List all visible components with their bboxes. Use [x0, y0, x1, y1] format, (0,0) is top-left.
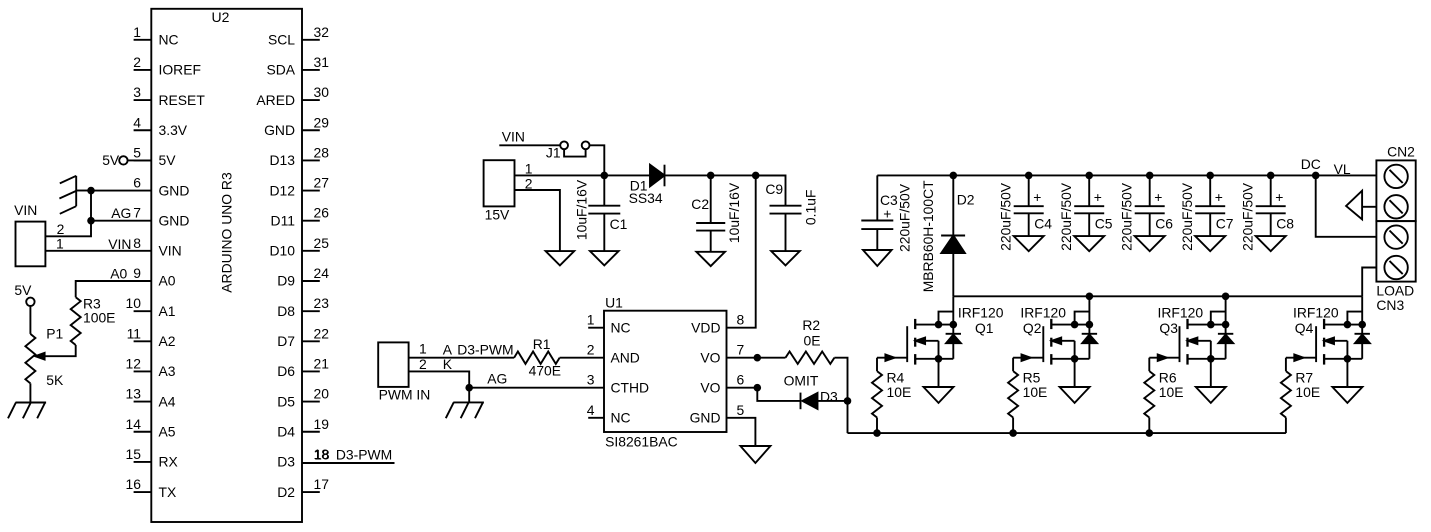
wire Q1 drain-source vertical: [952, 296, 954, 359]
svg-text:5V: 5V: [14, 282, 32, 298]
svg-text:R2: R2: [802, 317, 820, 333]
transistor Q3 gate bar: [1179, 326, 1181, 362]
svg-text:K: K: [443, 356, 453, 372]
svg-text:21: 21: [314, 355, 330, 371]
U1 pin8 VDD: [691, 312, 744, 336]
U2 right pin 25 D10: [270, 235, 330, 259]
wire 15V pin2 to ground: [515, 176, 560, 251]
Q1 substrate arrow: [915, 338, 938, 359]
svg-text:C3: C3: [880, 192, 898, 208]
svg-text:220uF/50V: 220uF/50V: [897, 183, 913, 252]
wire Q2 drain: [1051, 321, 1093, 329]
junction drain Q2: [1086, 293, 1094, 301]
CN terminal 2: [1384, 195, 1407, 218]
svg-text:2: 2: [525, 176, 533, 192]
svg-text:A3: A3: [159, 363, 176, 379]
svg-text:10uF/16V: 10uF/16V: [574, 179, 590, 240]
wire Q2 source to ground: [1074, 359, 1076, 387]
U2 left pin 4 3.3V: [133, 114, 188, 138]
U2 left pin 9 A0: [133, 265, 175, 289]
U1 pin4 NC: [587, 402, 631, 426]
junction VO pin6: [754, 384, 762, 392]
junction at AGND pin6: [87, 187, 95, 195]
svg-text:4: 4: [587, 402, 595, 418]
svg-text:GND: GND: [159, 212, 190, 228]
U1 pin6 VO: [700, 372, 744, 396]
junction C7: [1206, 172, 1214, 180]
wire Q2 source: [1051, 355, 1089, 363]
svg-text:19: 19: [314, 416, 330, 432]
capacitor C8: [1239, 175, 1294, 250]
svg-text:TX: TX: [159, 484, 177, 500]
U2 right pin 28 D13: [270, 144, 330, 168]
svg-text:2: 2: [133, 54, 141, 70]
U2 left pin 5 5V: [133, 144, 176, 168]
P1 wiper arrow: [35, 353, 44, 360]
svg-text:A1: A1: [159, 303, 176, 319]
junction AG node: [465, 384, 473, 392]
svg-text:U2: U2: [212, 9, 230, 25]
IC U2 ARDUINO UNO R3 body: [151, 9, 302, 522]
svg-text:C4: C4: [1034, 216, 1052, 232]
svg-text:7: 7: [133, 205, 141, 221]
svg-text:GND: GND: [159, 182, 190, 198]
U2 left pin 7 GND: [133, 205, 189, 229]
junction D3 R2: [844, 397, 852, 405]
wire AG to ground: [468, 388, 470, 403]
svg-text:RX: RX: [159, 454, 178, 470]
svg-text:7: 7: [737, 342, 745, 358]
svg-text:VIN: VIN: [108, 236, 131, 252]
svg-text:C6: C6: [1155, 216, 1173, 232]
svg-text:Q2: Q2: [1023, 320, 1042, 336]
svg-text:26: 26: [314, 205, 330, 221]
wire U1 pin6 to D3: [727, 388, 801, 401]
ground at Q1: [924, 387, 954, 403]
svg-text:30: 30: [314, 84, 330, 100]
transistor Q3 label: [1158, 304, 1204, 336]
wire R3 to P1 wiper: [35, 345, 75, 356]
wire gate bottom rail: [848, 432, 1286, 434]
svg-text:Q4: Q4: [1295, 320, 1314, 336]
transistor Q2 label: [1020, 304, 1066, 336]
svg-text:1: 1: [419, 340, 427, 356]
svg-text:IRF120: IRF120: [1158, 304, 1204, 320]
U2 left pin 2 IOREF: [133, 54, 201, 78]
transistor Q4 channel: [1323, 319, 1325, 365]
svg-text:Q1: Q1: [975, 320, 994, 336]
svg-text:CN2: CN2: [1387, 143, 1415, 159]
svg-text:D5: D5: [277, 393, 295, 409]
wire U2 pin9 A0: [76, 265, 152, 297]
svg-text:16: 16: [126, 476, 142, 492]
svg-text:VO: VO: [700, 379, 720, 395]
connector PWM IN: [378, 342, 430, 402]
svg-text:1: 1: [525, 160, 533, 176]
svg-text:2: 2: [587, 342, 595, 358]
svg-text:A: A: [443, 341, 453, 357]
svg-text:CTHD: CTHD: [611, 379, 650, 395]
U2 left pin 14 A5: [126, 416, 176, 440]
U2 vertical label ARDUINO UNO R3: [218, 172, 234, 293]
svg-text:C9: C9: [765, 181, 783, 197]
junction C6: [1146, 172, 1154, 180]
svg-text:12: 12: [126, 355, 142, 371]
svg-text:3: 3: [133, 84, 141, 100]
U2 right pin 17 D2: [277, 476, 329, 500]
net D3-PWM at U2 pin18: [302, 446, 395, 463]
wire R5 to rail: [1009, 418, 1017, 437]
U2 right pin 32 SCL: [268, 24, 329, 48]
svg-text:5V: 5V: [102, 152, 120, 168]
svg-text:15V: 15V: [485, 207, 510, 223]
wire AG to U1 pin3: [469, 371, 604, 388]
svg-text:ARDUINO UNO R3: ARDUINO UNO R3: [218, 172, 234, 293]
capacitor C4: [997, 175, 1052, 250]
svg-text:CN3: CN3: [1376, 297, 1404, 313]
U2 right pin 24 D9: [277, 265, 329, 289]
junction DC node: [1312, 172, 1320, 180]
svg-text:5: 5: [133, 144, 141, 160]
svg-text:220uF/50V: 220uF/50V: [1058, 182, 1074, 251]
junction drain Q3: [1222, 293, 1230, 301]
wire R4 to rail: [873, 418, 881, 437]
svg-text:AND: AND: [611, 349, 640, 365]
svg-text:10E: 10E: [1295, 384, 1320, 400]
wire Q3 source to ground: [1210, 359, 1212, 387]
U1 pin5 GND: [690, 402, 745, 426]
node 5V at U2 pin 5: [102, 152, 151, 168]
svg-text:22: 22: [314, 325, 330, 341]
node 5V at P1: [14, 282, 34, 334]
svg-text:6: 6: [133, 175, 141, 191]
svg-text:NC: NC: [611, 410, 631, 426]
svg-text:SS34: SS34: [629, 190, 663, 206]
svg-text:D7: D7: [277, 333, 295, 349]
svg-text:10E: 10E: [1159, 384, 1184, 400]
svg-text:0E: 0E: [804, 332, 821, 348]
Q3 substrate arrow: [1188, 338, 1211, 359]
wire VDD down to U1 pin8: [727, 175, 756, 327]
svg-text:+: +: [1094, 189, 1102, 205]
svg-text:VDD: VDD: [691, 319, 720, 335]
wire Q1 source: [915, 355, 953, 363]
svg-text:AG: AG: [487, 371, 507, 387]
U1 pin1 NC: [587, 312, 631, 336]
junction D2: [950, 172, 958, 180]
svg-text:IRF120: IRF120: [1293, 304, 1339, 320]
junction C2: [707, 172, 715, 180]
svg-text:8: 8: [737, 312, 745, 328]
svg-text:C1: C1: [610, 216, 628, 232]
svg-text:MBRB60H-100CT: MBRB60H-100CT: [920, 180, 936, 292]
net DC to CN2 pin1: [1301, 156, 1377, 177]
svg-text:23: 23: [314, 295, 330, 311]
svg-text:D3: D3: [277, 454, 295, 470]
U2 left pin 6 GND: [133, 175, 189, 199]
transistor Q2 gate bar: [1042, 326, 1044, 362]
wire R7 to rail: [1285, 418, 1287, 434]
capacitor C1: [574, 175, 628, 251]
svg-text:VO: VO: [700, 349, 720, 365]
U2 left pin 12 A3: [126, 355, 176, 379]
transistor Q4 label: [1293, 304, 1339, 336]
diode D3 OMIT: [784, 372, 848, 409]
svg-text:C7: C7: [1216, 216, 1234, 232]
svg-text:5: 5: [737, 402, 745, 418]
potentiometer P1: [25, 326, 64, 388]
ground at Q2: [1060, 387, 1090, 403]
U2 right pin 23 D8: [277, 295, 329, 319]
svg-text:C8: C8: [1276, 216, 1294, 232]
svg-text:OMIT: OMIT: [784, 372, 819, 388]
wire Q1 gate: [877, 355, 907, 372]
svg-text:IOREF: IOREF: [159, 62, 201, 78]
svg-text:D3-PWM: D3-PWM: [457, 341, 513, 357]
wire PWM pin1 to R1: [409, 340, 514, 357]
resistor R2: [786, 317, 835, 364]
svg-text:Q3: Q3: [1159, 320, 1178, 336]
ground at C7: [1195, 236, 1225, 251]
resistor R7: [1281, 370, 1320, 418]
svg-text:A0: A0: [159, 273, 176, 289]
svg-text:17: 17: [314, 476, 330, 492]
svg-text:U1: U1: [605, 294, 623, 310]
Q4 body diode: [1355, 334, 1370, 343]
wire Q3 source: [1188, 355, 1226, 363]
U2 left pin 1 NC: [133, 24, 178, 48]
arrow at CN2 pin2: [1346, 191, 1376, 220]
svg-text:31: 31: [314, 54, 330, 70]
ground at C3: [863, 250, 892, 266]
U2 left pin 13 A4: [126, 386, 176, 410]
svg-text:NC: NC: [611, 319, 631, 335]
wire Q4 source to ground: [1346, 359, 1348, 387]
svg-text:D3: D3: [820, 388, 838, 404]
Q2 body diode: [1082, 334, 1097, 343]
wire DC to CN3 pin3: [1316, 175, 1377, 236]
wire U2 pin6 GND: [91, 190, 151, 192]
capacitor C5: [1058, 175, 1113, 250]
svg-text:VIN: VIN: [502, 128, 525, 144]
svg-text:AG: AG: [111, 205, 131, 221]
svg-text:32: 32: [314, 24, 330, 40]
wire Q2 gate: [1013, 355, 1043, 372]
U2 left pin 10 A1: [126, 295, 176, 319]
U2 left pin 3 RESET: [133, 84, 205, 108]
wire Q3 gate: [1149, 355, 1179, 372]
svg-text:D8: D8: [277, 303, 295, 319]
svg-text:IRF120: IRF120: [958, 304, 1004, 320]
U2 right pin 22 D7: [277, 325, 329, 349]
svg-text:15: 15: [126, 446, 142, 462]
ground at C4: [1014, 236, 1044, 251]
wire Q2 drain-source vertical: [1088, 296, 1090, 359]
U2 left pin 11 A2: [127, 325, 176, 349]
svg-text:28: 28: [314, 144, 330, 160]
svg-text:D2: D2: [957, 192, 975, 208]
wire Q4 drain: [1324, 321, 1366, 329]
resistor R4: [872, 370, 911, 418]
svg-text:470E: 470E: [529, 362, 561, 378]
U2 right pin 27 D12: [270, 175, 330, 199]
ground at C5: [1074, 236, 1104, 251]
svg-text:ARED: ARED: [256, 92, 295, 108]
Q2 substrate arrow: [1051, 338, 1074, 359]
U2 left pin 15 RX: [126, 446, 178, 470]
diode D1 SS34: [629, 165, 665, 207]
wire PWM pin2 to AG: [409, 356, 470, 388]
svg-text:18: 18: [314, 446, 330, 462]
transistor Q3 channel: [1186, 319, 1188, 365]
ground at Q4: [1332, 387, 1362, 403]
ground at C1: [590, 251, 619, 265]
svg-text:5K: 5K: [46, 372, 64, 388]
Q2 drain jog: [1075, 312, 1090, 325]
net label VIN: [499, 128, 560, 145]
svg-text:D3-PWM: D3-PWM: [336, 447, 392, 463]
svg-text:PWM IN: PWM IN: [379, 386, 431, 402]
svg-text:220uF/50V: 220uF/50V: [997, 182, 1013, 251]
svg-text:220uF/50V: 220uF/50V: [1179, 182, 1195, 251]
U2 right pin 29 GND: [264, 114, 329, 138]
junction VO pin7: [754, 354, 762, 362]
wire VDD rail segment: [604, 174, 785, 176]
capacitor C9: [756, 175, 819, 251]
svg-text:SCL: SCL: [268, 32, 295, 48]
wire U2 pin7 AG: [91, 205, 151, 221]
svg-text:100E: 100E: [83, 310, 115, 326]
capacitor C6: [1118, 175, 1173, 250]
connector VIN: [14, 202, 45, 266]
wire Q4 source: [1324, 355, 1362, 363]
svg-text:P1: P1: [46, 326, 63, 342]
U2 right pin 20 D5: [277, 386, 329, 410]
svg-text:10: 10: [126, 295, 142, 311]
svg-text:VL: VL: [1334, 161, 1351, 177]
svg-text:3: 3: [587, 372, 595, 388]
svg-text:10uF/16V: 10uF/16V: [726, 182, 742, 243]
wire R2 to D3 node: [834, 358, 847, 401]
transistor Q2 channel: [1050, 319, 1052, 365]
U1 pin3 CTHD: [587, 372, 649, 396]
svg-text:+: +: [1215, 189, 1223, 205]
Q4 drain jog: [1347, 312, 1362, 325]
junction at AG pin7: [87, 217, 95, 225]
svg-text:4: 4: [133, 114, 141, 130]
svg-text:GND: GND: [690, 410, 721, 426]
svg-text:25: 25: [314, 235, 330, 251]
svg-text:10E: 10E: [1023, 384, 1048, 400]
svg-text:9: 9: [133, 265, 141, 281]
svg-text:GND: GND: [264, 122, 295, 138]
ground chassis at AG: [446, 402, 484, 418]
transistor Q4 gate bar: [1315, 326, 1317, 362]
ground at C9: [771, 251, 800, 265]
svg-text:5V: 5V: [159, 152, 177, 168]
wire U2 pin8 VIN: [45, 235, 151, 252]
svg-text:VIN: VIN: [159, 243, 182, 259]
junction C4: [1025, 172, 1033, 180]
svg-text:20: 20: [314, 386, 330, 402]
capacitor C7: [1179, 175, 1234, 250]
svg-text:SI8261BAC: SI8261BAC: [605, 434, 678, 450]
wire Q3 drain: [1188, 321, 1230, 329]
svg-text:27: 27: [314, 175, 330, 191]
svg-text:14: 14: [126, 416, 142, 432]
wire gate drive to bottom rail: [847, 401, 849, 433]
ground at Q3: [1196, 387, 1226, 403]
wire drain rail: [953, 295, 1362, 297]
svg-text:1: 1: [133, 24, 141, 40]
connector CN3: [1376, 221, 1415, 313]
svg-text:2: 2: [419, 356, 427, 372]
svg-text:1: 1: [56, 235, 64, 251]
transistor Q1 channel: [914, 319, 916, 365]
svg-text:VIN: VIN: [14, 202, 37, 218]
U1 pin2 AND: [587, 342, 640, 366]
svg-text:D9: D9: [277, 273, 295, 289]
capacitor C2: [691, 175, 742, 251]
svg-text:C5: C5: [1095, 216, 1113, 232]
svg-text:NC: NC: [159, 32, 179, 48]
CN terminal 1: [1384, 165, 1407, 188]
U2 right pin 19 D4: [277, 416, 329, 440]
wire Q4 drain-source vertical: [1361, 296, 1363, 359]
svg-text:+: +: [1275, 189, 1283, 205]
transistor Q1 label: [958, 304, 1004, 336]
connector CN2: [1376, 143, 1415, 221]
ground at C6: [1135, 236, 1165, 251]
svg-text:220uF/50V: 220uF/50V: [1118, 182, 1134, 251]
IC U1 SI8261BAC body: [604, 294, 727, 449]
svg-text:SDA: SDA: [266, 62, 295, 78]
svg-text:+: +: [1154, 189, 1162, 205]
svg-text:D10: D10: [270, 243, 296, 259]
svg-text:RESET: RESET: [159, 92, 206, 108]
svg-text:13: 13: [126, 386, 142, 402]
U2 right pin 31 SDA: [266, 54, 329, 78]
U2 right pin 26 D11: [271, 205, 330, 229]
wire P1 to ground: [29, 383, 31, 402]
svg-text:1: 1: [587, 312, 595, 328]
svg-text:24: 24: [314, 265, 330, 281]
svg-text:+: +: [1033, 189, 1041, 205]
ground at 15V pin2: [546, 251, 575, 265]
U2 left pin 16 TX: [126, 476, 177, 500]
ground at U1 GND: [740, 446, 770, 463]
Q3 body diode: [1218, 334, 1233, 343]
U2 right pin 18 D3: [277, 446, 329, 470]
wire VIN conn pin2 to AG: [45, 221, 91, 237]
U2 right pin 21 D6: [277, 355, 329, 379]
Q1 drain jog: [939, 312, 954, 325]
ground chassis at P1: [8, 403, 46, 419]
wire load rail: [877, 174, 1315, 176]
svg-text:IRF120: IRF120: [1020, 304, 1066, 320]
ground chassis at U2 pin6: [59, 176, 91, 214]
svg-text:A2: A2: [159, 333, 176, 349]
wire J1 to rail: [590, 145, 605, 175]
jumper J1: [546, 141, 590, 160]
resistor R3: [71, 295, 116, 345]
svg-text:D6: D6: [277, 363, 295, 379]
svg-text:10E: 10E: [887, 384, 912, 400]
wire AG vertical: [90, 191, 92, 221]
wire R1 to U1 pin2: [560, 357, 604, 359]
capacitor C3: [861, 175, 912, 252]
svg-text:3.3V: 3.3V: [159, 122, 188, 138]
